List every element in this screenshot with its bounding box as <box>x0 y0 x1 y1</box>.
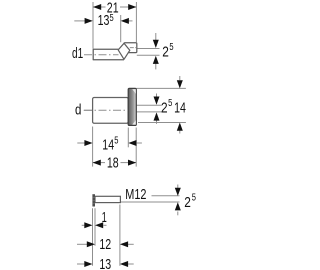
svg-text:2: 2 <box>162 44 169 61</box>
svg-text:5: 5 <box>169 42 174 53</box>
svg-text:13: 13 <box>98 12 110 29</box>
svg-text:d: d <box>75 102 81 119</box>
svg-text:14: 14 <box>174 100 186 117</box>
svg-text:5: 5 <box>168 98 173 109</box>
svg-text:18: 18 <box>107 154 119 171</box>
svg-text:d1: d1 <box>72 45 83 62</box>
svg-text:14: 14 <box>102 137 114 154</box>
svg-text:13: 13 <box>99 256 111 270</box>
svg-text:12: 12 <box>99 236 111 253</box>
svg-text:5: 5 <box>114 136 119 147</box>
svg-text:1: 1 <box>102 209 107 226</box>
svg-text:5: 5 <box>110 13 115 24</box>
svg-text:5: 5 <box>192 193 197 204</box>
svg-text:2: 2 <box>161 100 168 117</box>
svg-text:2: 2 <box>184 194 191 211</box>
svg-text:M12: M12 <box>125 186 146 203</box>
